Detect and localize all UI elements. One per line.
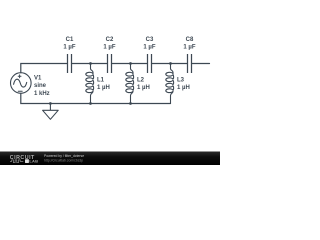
wire top rail segment 1 xyxy=(21,64,68,73)
label L2 value xyxy=(137,78,150,92)
svg-text:C8: C8 xyxy=(186,37,194,43)
capacitor C2 xyxy=(108,54,112,73)
node N3 top of L3 xyxy=(169,62,172,65)
svg-text:L2: L2 xyxy=(137,78,145,84)
wire top rail segment 4 xyxy=(152,63,188,65)
node junction dots xyxy=(49,62,172,105)
svg-text:1 µF: 1 µF xyxy=(143,44,155,50)
voltage source V1 xyxy=(10,73,31,94)
label C2 value xyxy=(103,37,115,51)
svg-text:C1: C1 xyxy=(66,37,74,43)
svg-text:C3: C3 xyxy=(146,37,154,43)
inductor L3 xyxy=(166,64,174,104)
svg-text:1 kHz: 1 kHz xyxy=(34,91,50,97)
svg-text:V1: V1 xyxy=(34,76,42,82)
label V1 value xyxy=(34,76,50,97)
node bottom of L1 xyxy=(89,102,92,105)
capacitor C1 xyxy=(68,54,72,73)
footer text xyxy=(44,154,84,162)
node bottom of L2 xyxy=(129,102,132,105)
svg-text:L1: L1 xyxy=(97,78,105,84)
capacitor C8 xyxy=(188,54,192,73)
svg-text:1 µF: 1 µF xyxy=(103,44,115,50)
label C3 value xyxy=(143,37,155,51)
svg-text:1 µH: 1 µH xyxy=(137,85,150,91)
svg-text:LAB: LAB xyxy=(29,159,38,164)
footer CircuitLab logo xyxy=(10,155,38,164)
label C1 value xyxy=(63,37,75,51)
svg-text:1 µF: 1 µF xyxy=(183,44,195,50)
wire top rail segment 3 xyxy=(112,63,148,65)
svg-text:Powered by / filter_dcterse: Powered by / filter_dcterse xyxy=(44,154,84,158)
footer bar xyxy=(0,152,220,166)
inductor L1 xyxy=(86,64,94,104)
wire bottom rail xyxy=(21,93,171,103)
label L3 value xyxy=(177,78,190,92)
label L1 value xyxy=(97,78,110,92)
wire top rail segment 5 (output stub) xyxy=(192,63,210,65)
svg-text:1 µH: 1 µH xyxy=(97,85,110,91)
svg-text:sine: sine xyxy=(34,83,47,89)
node N1 top of L1 xyxy=(89,62,92,65)
node N2 top of L2 xyxy=(129,62,132,65)
svg-text:http://circuitlab.com/cbs3p: http://circuitlab.com/cbs3p xyxy=(44,158,83,162)
node ground junction xyxy=(49,102,52,105)
svg-text:C2: C2 xyxy=(106,37,114,43)
svg-text:1 µF: 1 µF xyxy=(63,44,75,50)
capacitor C3 xyxy=(148,54,152,73)
label C8 value xyxy=(183,37,195,51)
inductor L2 xyxy=(126,64,134,104)
svg-text:1 µH: 1 µH xyxy=(177,85,190,91)
wire top rail segment 2 xyxy=(72,63,108,65)
svg-text:L3: L3 xyxy=(177,78,185,84)
ground xyxy=(43,104,59,120)
